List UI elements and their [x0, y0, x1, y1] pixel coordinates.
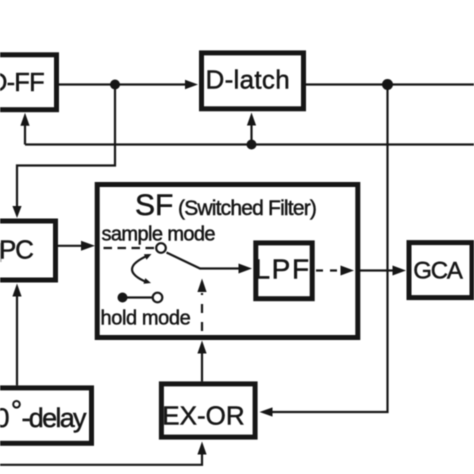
wire: junction down and left to APC top input — [12, 85, 115, 219]
wire: D-latch output to right edge — [306, 83, 474, 85]
svg-text:GCA: GCA — [413, 258, 463, 285]
wire: APC output into SF sample-mode control — [58, 241, 95, 251]
switch sample contact — [156, 243, 166, 253]
node: junction on D-FF output — [110, 80, 120, 90]
wire: bus up into D-FF clock — [20, 113, 29, 145]
switch motion arc — [132, 254, 151, 284]
svg-text:PC: PC — [0, 235, 33, 265]
svg-text:LPF: LPF — [255, 254, 311, 285]
wire: dashed control line inside SF up to switch — [197, 279, 206, 332]
switch hold contact — [118, 293, 163, 303]
block APC — [0, 221, 56, 280]
wire: bottom reference input into EX-OR — [0, 442, 207, 465]
svg-text:hold mode: hold mode — [101, 308, 191, 330]
wire: bus junction up into D-latch clock — [247, 113, 256, 145]
svg-text:EX-OR: EX-OR — [162, 400, 244, 430]
wire: D-FF output to D-latch data input — [59, 80, 198, 90]
wire: LPF output dashed to SF box edge — [316, 266, 354, 276]
block 0-delay — [0, 388, 92, 443]
wire: EX-OR output up into SF bottom edge — [197, 341, 206, 382]
wire: dashed control line to sample contact — [104, 247, 155, 249]
block D-latch — [202, 53, 304, 109]
block GCA — [409, 243, 472, 298]
wire: feedback bus line — [25, 143, 474, 145]
node: junction on bus below D-latch — [247, 140, 257, 150]
wire: junction down then left into EX-OR right input — [260, 85, 388, 417]
partial cut letter at left edge — [0, 243, 2, 262]
svg-text:SF: SF — [135, 189, 173, 222]
block D-FF — [0, 55, 57, 110]
block EX-OR — [161, 384, 255, 437]
label SF title — [135, 189, 316, 222]
svg-text:-delay: -delay — [22, 403, 88, 433]
wire: delay output up into APC bottom — [12, 284, 21, 386]
switch arm into LPF — [167, 253, 253, 274]
svg-text:0: 0 — [0, 403, 10, 433]
svg-text:(Switched Filter): (Switched Filter) — [178, 197, 316, 220]
svg-text:D-latch: D-latch — [206, 65, 290, 95]
node: junction right of D-latch — [382, 79, 393, 90]
wire: SF output into GCA — [360, 266, 406, 276]
block LPF — [255, 243, 313, 299]
svg-text:D-FF: D-FF — [0, 69, 44, 97]
svg-text:sample mode: sample mode — [102, 223, 216, 245]
block SF (Switched Filter) — [97, 185, 358, 338]
